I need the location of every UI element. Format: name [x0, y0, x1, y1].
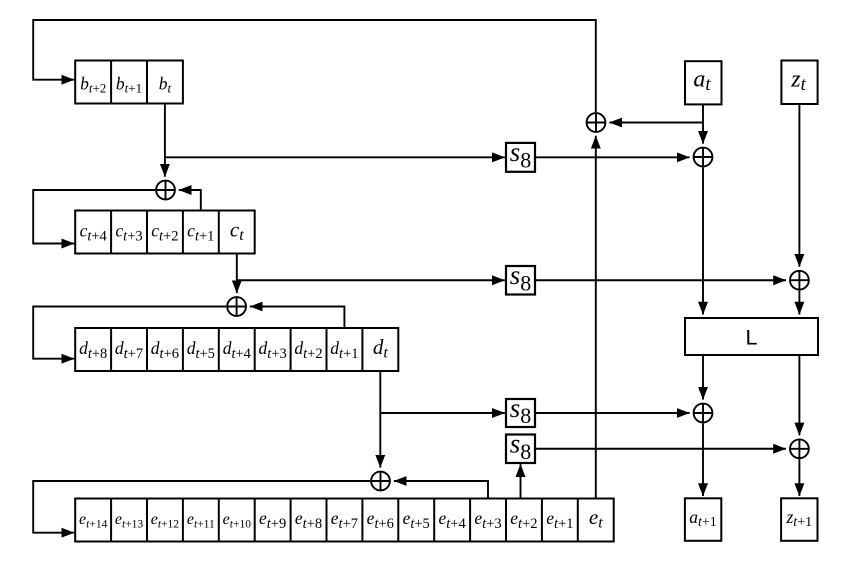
wire d_t+1 tap into XOR-d: [250, 307, 345, 329]
wire e_t feedback up into XOR1 (long vertical rail): [595, 136, 597, 499]
box a_t+1 (next a word): [685, 498, 721, 541]
s-box S8 #2 (c path): [506, 260, 535, 295]
wire S8#4 output right into XOR5: [535, 448, 786, 450]
wire XOR-c output left and down into register c input: [33, 190, 155, 244]
box a_t (register word a): [685, 61, 722, 104]
register b (shift register, 3 cells): [75, 61, 183, 104]
register d (shift register, 9 cells): [75, 328, 398, 371]
wire S8#1 output right into XOR2: [535, 156, 690, 158]
xor gate feedback of register c (b_t xor c_t+1): [156, 181, 175, 200]
box z_t+1 (next keystream word): [781, 498, 817, 541]
register c (shift register, 5 cells): [75, 211, 255, 254]
wire S8#3 output right into XOR4: [535, 412, 690, 414]
s-box S8 #1 (b path): [506, 137, 535, 172]
wire c_t+1 tap into XOR-c: [179, 190, 201, 211]
wire XOR4 output down into box a_t+1: [702, 423, 704, 496]
wire XOR2 output down into L box: [702, 167, 704, 314]
xor gate feedback of register e (d_t xor e_t+3): [371, 472, 390, 491]
box L (linear transformation): [685, 318, 818, 355]
xor gate L xor S8(e_t+2) giving z_t+1: [790, 439, 809, 458]
xor gate z_t xor S8(c_t): [790, 271, 809, 290]
wire b_t branch right into S8#1: [165, 156, 505, 158]
box z_t (keystream word z): [781, 61, 817, 105]
xor gate top (e_t xor a_t) feeding register b: [587, 113, 606, 132]
wire XOR-e output left and down into register e input: [33, 481, 370, 533]
wire XOR1 output up, across top, down into register b input: [33, 20, 596, 112]
wire b_t output down into XOR-c: [164, 104, 166, 177]
wire S8#2 output right into XOR3: [535, 279, 786, 281]
wire z_t down into XOR3: [798, 104, 800, 267]
xor gate L xor S8(d_t) giving a_t+1: [694, 404, 713, 423]
wire e_t+2 tap up into S8#4: [520, 464, 522, 498]
s-box S8 #4 (e path): [506, 429, 535, 464]
wire d_t output down into XOR-e: [379, 371, 381, 468]
wire L output down into XOR4: [702, 355, 704, 400]
wire XOR-d output left and down into register d input: [33, 307, 226, 359]
wire c_t output down into XOR-d: [236, 254, 238, 294]
wire c_t branch right into S8#2: [237, 279, 505, 281]
wire a_t down into XOR2: [702, 104, 704, 143]
wire XOR3 output down into L box: [798, 291, 800, 315]
s-box S8 #3 (d path): [506, 393, 535, 428]
wire d_t branch right into S8#3: [380, 412, 505, 414]
wire a_t branch left into XOR1: [609, 122, 703, 124]
wire e_t+3 tap into XOR-e: [394, 481, 488, 499]
xor gate a_t xor S8(b_t): [694, 148, 713, 167]
wire L output down into XOR5: [798, 355, 800, 435]
wire XOR5 output down into box z_t+1: [798, 459, 800, 496]
svg-text:L: L: [746, 326, 758, 350]
xor gate feedback of register d (c_t xor d_t+1): [227, 297, 246, 316]
register e (shift register, 15 cells): [75, 499, 614, 542]
